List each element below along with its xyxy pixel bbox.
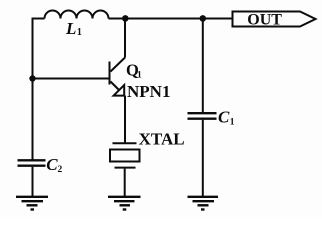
capacitor C2 xyxy=(18,160,46,165)
svg-text:NPN1: NPN1 xyxy=(127,82,170,101)
inductor L1 xyxy=(45,11,109,19)
wire C1 to ground xyxy=(202,120,204,196)
svg-text:C: C xyxy=(46,155,58,174)
node: collector junction xyxy=(122,15,129,22)
ground (C2) xyxy=(16,197,48,210)
svg-text:C: C xyxy=(218,108,230,127)
node: C1 junction xyxy=(200,15,207,22)
svg-text:1: 1 xyxy=(77,27,82,38)
OUT flag xyxy=(233,12,316,27)
wire base horizontal xyxy=(33,78,109,80)
crystal XTAL xyxy=(110,143,140,196)
node: base junction xyxy=(29,75,35,81)
svg-text:L: L xyxy=(65,19,76,38)
svg-text:XTAL: XTAL xyxy=(139,129,185,148)
svg-text:1: 1 xyxy=(137,71,142,81)
svg-text:2: 2 xyxy=(58,165,63,175)
transistor Q1 xyxy=(110,19,126,143)
wire C1 top xyxy=(202,19,204,113)
ground (XTAL) xyxy=(108,197,141,210)
wire C2 to ground xyxy=(32,167,34,196)
svg-text:OUT: OUT xyxy=(247,12,282,29)
svg-text:1: 1 xyxy=(230,117,235,127)
wire inductor to OUT flag xyxy=(109,18,233,20)
ground (C1) xyxy=(188,197,219,210)
wire top-left corner to inductor xyxy=(33,19,45,161)
capacitor C1 xyxy=(188,113,217,119)
